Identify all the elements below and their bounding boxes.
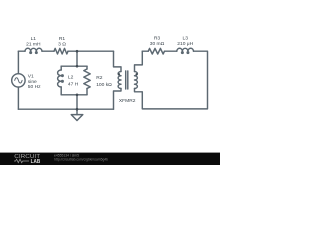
transformer XFMR2 primary winding bbox=[118, 72, 121, 89]
wire L2 bottom lead bbox=[60, 87, 62, 95]
wire transformer primary top lead bbox=[114, 51, 122, 71]
resistor R2 bbox=[84, 69, 90, 89]
wire left vertical from V1 top to top rail bbox=[17, 51, 19, 73]
wire R3 to L3 bbox=[165, 50, 177, 52]
svg-text:R1: R1 bbox=[59, 36, 66, 42]
wire parallel top rail bbox=[61, 65, 87, 67]
transformer core bbox=[125, 71, 127, 89]
svg-text:R3: R3 bbox=[154, 35, 161, 41]
transformer primary polarity dot bbox=[118, 73, 120, 75]
voltage source V1 bbox=[12, 74, 25, 87]
svg-text:47 H: 47 H bbox=[68, 82, 79, 88]
wire secondary to R3 bbox=[142, 50, 148, 52]
transformer secondary winding bbox=[135, 72, 138, 89]
wire V1 bottom lead bbox=[17, 87, 19, 109]
wire mid vertical to ground rail bbox=[76, 95, 78, 109]
wire transformer primary bottom lead bbox=[114, 89, 122, 110]
inductor L1 bbox=[25, 48, 42, 51]
node ground rail bbox=[76, 108, 79, 111]
svg-text:XFMR2: XFMR2 bbox=[119, 98, 136, 104]
svg-text:L1: L1 bbox=[31, 36, 37, 42]
component labels bbox=[26, 35, 194, 104]
svg-text:3 Ω: 3 Ω bbox=[58, 41, 66, 47]
svg-text:R2: R2 bbox=[96, 75, 103, 81]
node junction dots bbox=[76, 50, 138, 111]
wire transformer secondary top lead bbox=[135, 51, 143, 71]
svg-text:100 kΩ: 100 kΩ bbox=[96, 82, 112, 88]
svg-text:21 mH: 21 mH bbox=[26, 42, 41, 48]
svg-text:30 mΩ: 30 mΩ bbox=[150, 41, 165, 47]
wire junction down to parallel section bbox=[76, 51, 78, 66]
wire L1 to R1 bbox=[42, 50, 54, 52]
svg-text:LAB: LAB bbox=[31, 159, 41, 165]
inductor L3 bbox=[177, 48, 194, 51]
inductor L2 bbox=[58, 70, 62, 87]
wire L3 to right edge and down bbox=[135, 51, 208, 109]
svg-text:L3: L3 bbox=[182, 35, 188, 41]
wire L2 top lead bbox=[60, 66, 62, 70]
wire bottom rail left bbox=[18, 108, 113, 110]
ground bbox=[76, 109, 78, 114]
wire R2 bottom lead bbox=[86, 89, 88, 95]
transformer secondary polarity dot bbox=[136, 73, 138, 75]
wire top rail to L1 bbox=[18, 50, 25, 52]
svg-text:http://circuitlab.com/c/g6kmsa: http://circuitlab.com/c/g6kmsam5g4b bbox=[54, 158, 108, 162]
resistor R3 bbox=[148, 48, 164, 54]
node junction R1/XFMR/parallel bbox=[76, 50, 79, 53]
CircuitLab logo bbox=[14, 154, 41, 165]
svg-text:50 Hz: 50 Hz bbox=[28, 84, 41, 90]
svg-text:L2: L2 bbox=[68, 75, 74, 81]
wire R1 to transformer branch bbox=[68, 50, 114, 52]
wire R2 top lead bbox=[86, 66, 88, 69]
node parallel top bbox=[76, 65, 79, 68]
resistor R1 bbox=[54, 48, 68, 54]
wire parallel bottom rail bbox=[61, 94, 87, 96]
watermark banner bbox=[0, 153, 220, 165]
node parallel bottom bbox=[76, 94, 79, 97]
svg-text:V1: V1 bbox=[28, 74, 34, 80]
svg-text:sine: sine bbox=[28, 79, 37, 85]
svg-text:210 μH: 210 μH bbox=[177, 41, 193, 47]
